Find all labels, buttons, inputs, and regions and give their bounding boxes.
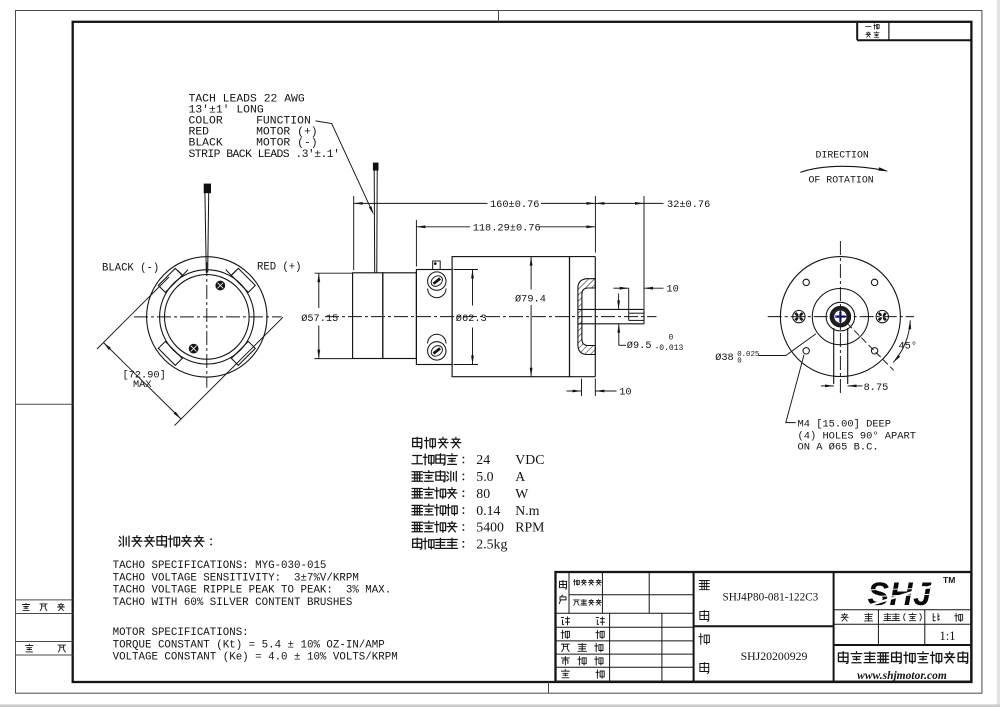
svg-text:DIRECTION: DIRECTION [816,149,869,160]
dim dia9.5: top arrow [618,294,620,310]
svg-text:ON A Ø65 B.C.: ON A Ø65 B.C. [798,442,879,454]
svg-text:160±0.76: 160±0.76 [490,199,539,211]
front view: vertical centerline [839,241,841,394]
front view: M4 holes (4x at 45deg) [803,279,809,285]
title block outline [556,572,972,682]
side view: shaft [578,308,644,310]
screenshot bottom gray strip [0,704,1000,707]
svg-text:5.0: 5.0 [476,469,493,484]
svg-text:TACHO VOLTAGE SENSITIVITY: 3±: TACHO VOLTAGE SENSITIVITY: 3±7%V/KRPM [113,572,359,584]
svg-text:Ø9.5: Ø9.5 [627,340,652,352]
svg-text:0: 0 [737,357,741,365]
parameter row 5 [412,522,422,531]
parameter row 4 [412,505,422,514]
svg-text:SHJ: SHJ [868,576,932,612]
dim 160: dimension line [354,202,488,204]
svg-text:SHJ20200929: SHJ20200929 [741,649,808,663]
title block major vertical dividers [693,572,695,682]
dim dia62.3: extension lines [454,269,479,271]
side view: terminal tab on housing [433,261,441,270]
svg-text:TACHO SPECIFICATIONS: MYG-030-: TACHO SPECIFICATIONS: MYG-030-015 [113,560,327,572]
side view: shaft keyway flat [629,312,644,314]
dim 118.29: dimension line [416,226,470,228]
side view: wire connector tip [373,163,379,171]
side view: front housing section [569,257,571,377]
front view: body outer circle [780,257,900,377]
svg-text:24: 24 [476,452,490,467]
svg-text:RED (+): RED (+) [257,261,302,273]
dim keyway 10: extension line [628,288,630,313]
svg-text:Ø62.3: Ø62.3 [456,313,487,325]
bottom edge center tick [548,682,550,693]
left view: horizontal centerline [134,316,282,318]
svg-text:MAX: MAX [133,379,152,391]
left view: housing ring inner [165,275,250,360]
front view: shaft ring (thick) [830,306,850,326]
dim 8.75: dimension lines with outside arrows [821,385,834,387]
side view: rubber gasket C-profile hatched [578,279,595,355]
svg-text:118.29±0.76: 118.29±0.76 [473,222,541,234]
left view: small v-notches [178,270,189,276]
svg-text:1:1: 1:1 [940,629,956,643]
svg-text:32±0.76: 32±0.76 [667,199,710,211]
svg-text:0.14: 0.14 [476,503,500,518]
svg-text:TACHO VOLTAGE RIPPLE PEAK TO P: TACHO VOLTAGE RIPPLE PEAK TO PEAK: 3% MA… [113,585,392,597]
svg-text:8.75: 8.75 [864,382,889,394]
dim [72.90] MAX: dimension line with arrows [103,343,181,420]
left margin column lines [16,403,73,405]
svg-text:5400: 5400 [476,520,504,535]
left view: brush tabs (4x rotated) [231,268,255,292]
dim dia57.15: dimension line (broken for text) [318,273,320,308]
dim 160: extension line left [353,196,355,270]
side view: brush housing [416,270,452,365]
left view: wire connector tip [204,184,211,194]
side view: tacho body [383,273,417,359]
left margin label: page no [25,644,33,652]
dim dia9.5: bottom arrow + elbow [618,324,620,346]
svg-text:10: 10 [619,387,631,399]
left view: screw top-right (filled) [216,281,225,290]
front view: 45deg dashed line [847,323,894,370]
title block: model number labels [699,580,709,589]
dim dia57.15: extension lines [315,272,353,274]
side view: tacho rear cap [353,273,383,359]
left margin label: total pages [22,603,29,610]
parameter row 3 [412,489,422,498]
dim 32: extension line at shaft end [643,196,645,309]
svg-text:VDC: VDC [515,452,544,467]
svg-text:www.shjmotor.com: www.shjmotor.com [857,670,947,682]
title block right: qty/weight/scale header [834,609,972,611]
svg-text:N.m: N.m [515,503,539,518]
dim keyway 10: dimension line, outside arrows [614,287,629,289]
svg-text:SHJ4P80-081-122C3: SHJ4P80-081-122C3 [723,591,819,603]
title block: type/code divider [694,625,834,627]
tacho generator heading (CJK) [119,536,129,546]
svg-text:0: 0 [669,334,674,343]
svg-text:45°: 45° [899,341,918,353]
front view: keyway projection lines [833,328,835,384]
svg-text:-0.013: -0.013 [655,344,684,353]
title block right: SHJ logo [861,576,939,612]
left view: housing ring outer [160,270,254,364]
front view: pilot boss circle dia38 [812,289,868,345]
title block: company name [838,652,848,664]
side view: motor main body [452,257,569,377]
left view: vertical centerline [206,262,208,388]
side view: tach lead wire pair [373,170,376,272]
svg-text:M4 [15.00] DEEP: M4 [15.00] DEEP [798,419,892,431]
side view: screw boss bottom (circle + slot) [428,334,446,343]
side view: screw boss top (circle + slot) [428,289,446,298]
dim 118.29: extension line left [415,220,417,267]
front view: blue center plus mark [835,315,845,318]
svg-text:10: 10 [666,284,678,296]
svg-text:Ø38: Ø38 [715,352,734,364]
svg-text:80: 80 [476,486,490,501]
dim 32: extension line at front face [594,196,596,253]
svg-text:RPM: RPM [515,520,544,535]
parameter row 1 [412,456,422,464]
svg-text:MOTOR SPECIFICATIONS:: MOTOR SPECIFICATIONS: [113,627,249,639]
front view: bearing circle [826,302,855,331]
parameter row 2 [412,472,422,481]
leader M4 from hole to note [786,355,804,423]
screenshot right gray edge [997,0,1000,707]
svg-text:Ø57.15: Ø57.15 [301,313,338,325]
dim [72.90] MAX: extension lines [97,277,169,349]
svg-text:TORQUE CONSTANT (Kt) = 5.4 ± 1: TORQUE CONSTANT (Kt) = 5.4 ± 10% OZ-IN/A… [113,639,385,651]
title block left: row lines [569,594,694,596]
svg-text:OF ROTATION: OF ROTATION [809,175,874,186]
dim front 10: dimension line outside arrows [567,390,582,392]
left view: rear end cap outer circle [147,257,267,377]
svg-text:A: A [515,469,525,484]
svg-text:VOLTAGE CONSTANT (Ke) = 4.0 ±: VOLTAGE CONSTANT (Ke) = 4.0 ± 10% VOLTS/… [113,652,398,664]
svg-text:2.5kg: 2.5kg [476,536,507,551]
left view: screw bottom-left (filled) [189,344,198,353]
general tolerance box top-right [856,22,858,40]
dim front 10: extension lines below [581,379,583,397]
svg-text:TACHO WITH 60% SILVER CONTENT: TACHO WITH 60% SILVER CONTENT BRUSHES [113,597,353,609]
svg-text:(4) HOLES 90° APART: (4) HOLES 90° APART [798,430,916,442]
dim 45deg: arc with arrows [893,320,910,362]
front view: phillips screws left/right [793,310,805,322]
svg-text:TM: TM [943,575,955,585]
motor parameters heading [413,437,422,448]
svg-text:Ø79.4: Ø79.4 [515,294,546,306]
dim dia62.3: dimension line [472,270,474,306]
svg-text:W: W [515,486,528,501]
left view: tach lead wire pair [205,193,206,273]
dim 32: dimension line [595,202,644,204]
leader dia38 to boss circle [759,334,817,356]
title block rows: design/check/quality/market/approve [561,617,569,625]
leader from FUNCTION to tach wire [316,121,373,212]
top edge center tick [498,11,500,22]
side view: horizontal centerline [325,316,657,318]
svg-text:BLACK (-): BLACK (-) [102,262,159,274]
title block left: column lines [568,572,570,613]
title block: customer label [560,581,567,590]
parameter row 6 [413,538,422,549]
dim dia79.4: dimension line inside body [530,257,532,290]
svg-text:STRIP BACK LEADS .3'±.1': STRIP BACK LEADS .3'±.1' [189,149,340,161]
front view: horizontal centerline [768,316,914,318]
